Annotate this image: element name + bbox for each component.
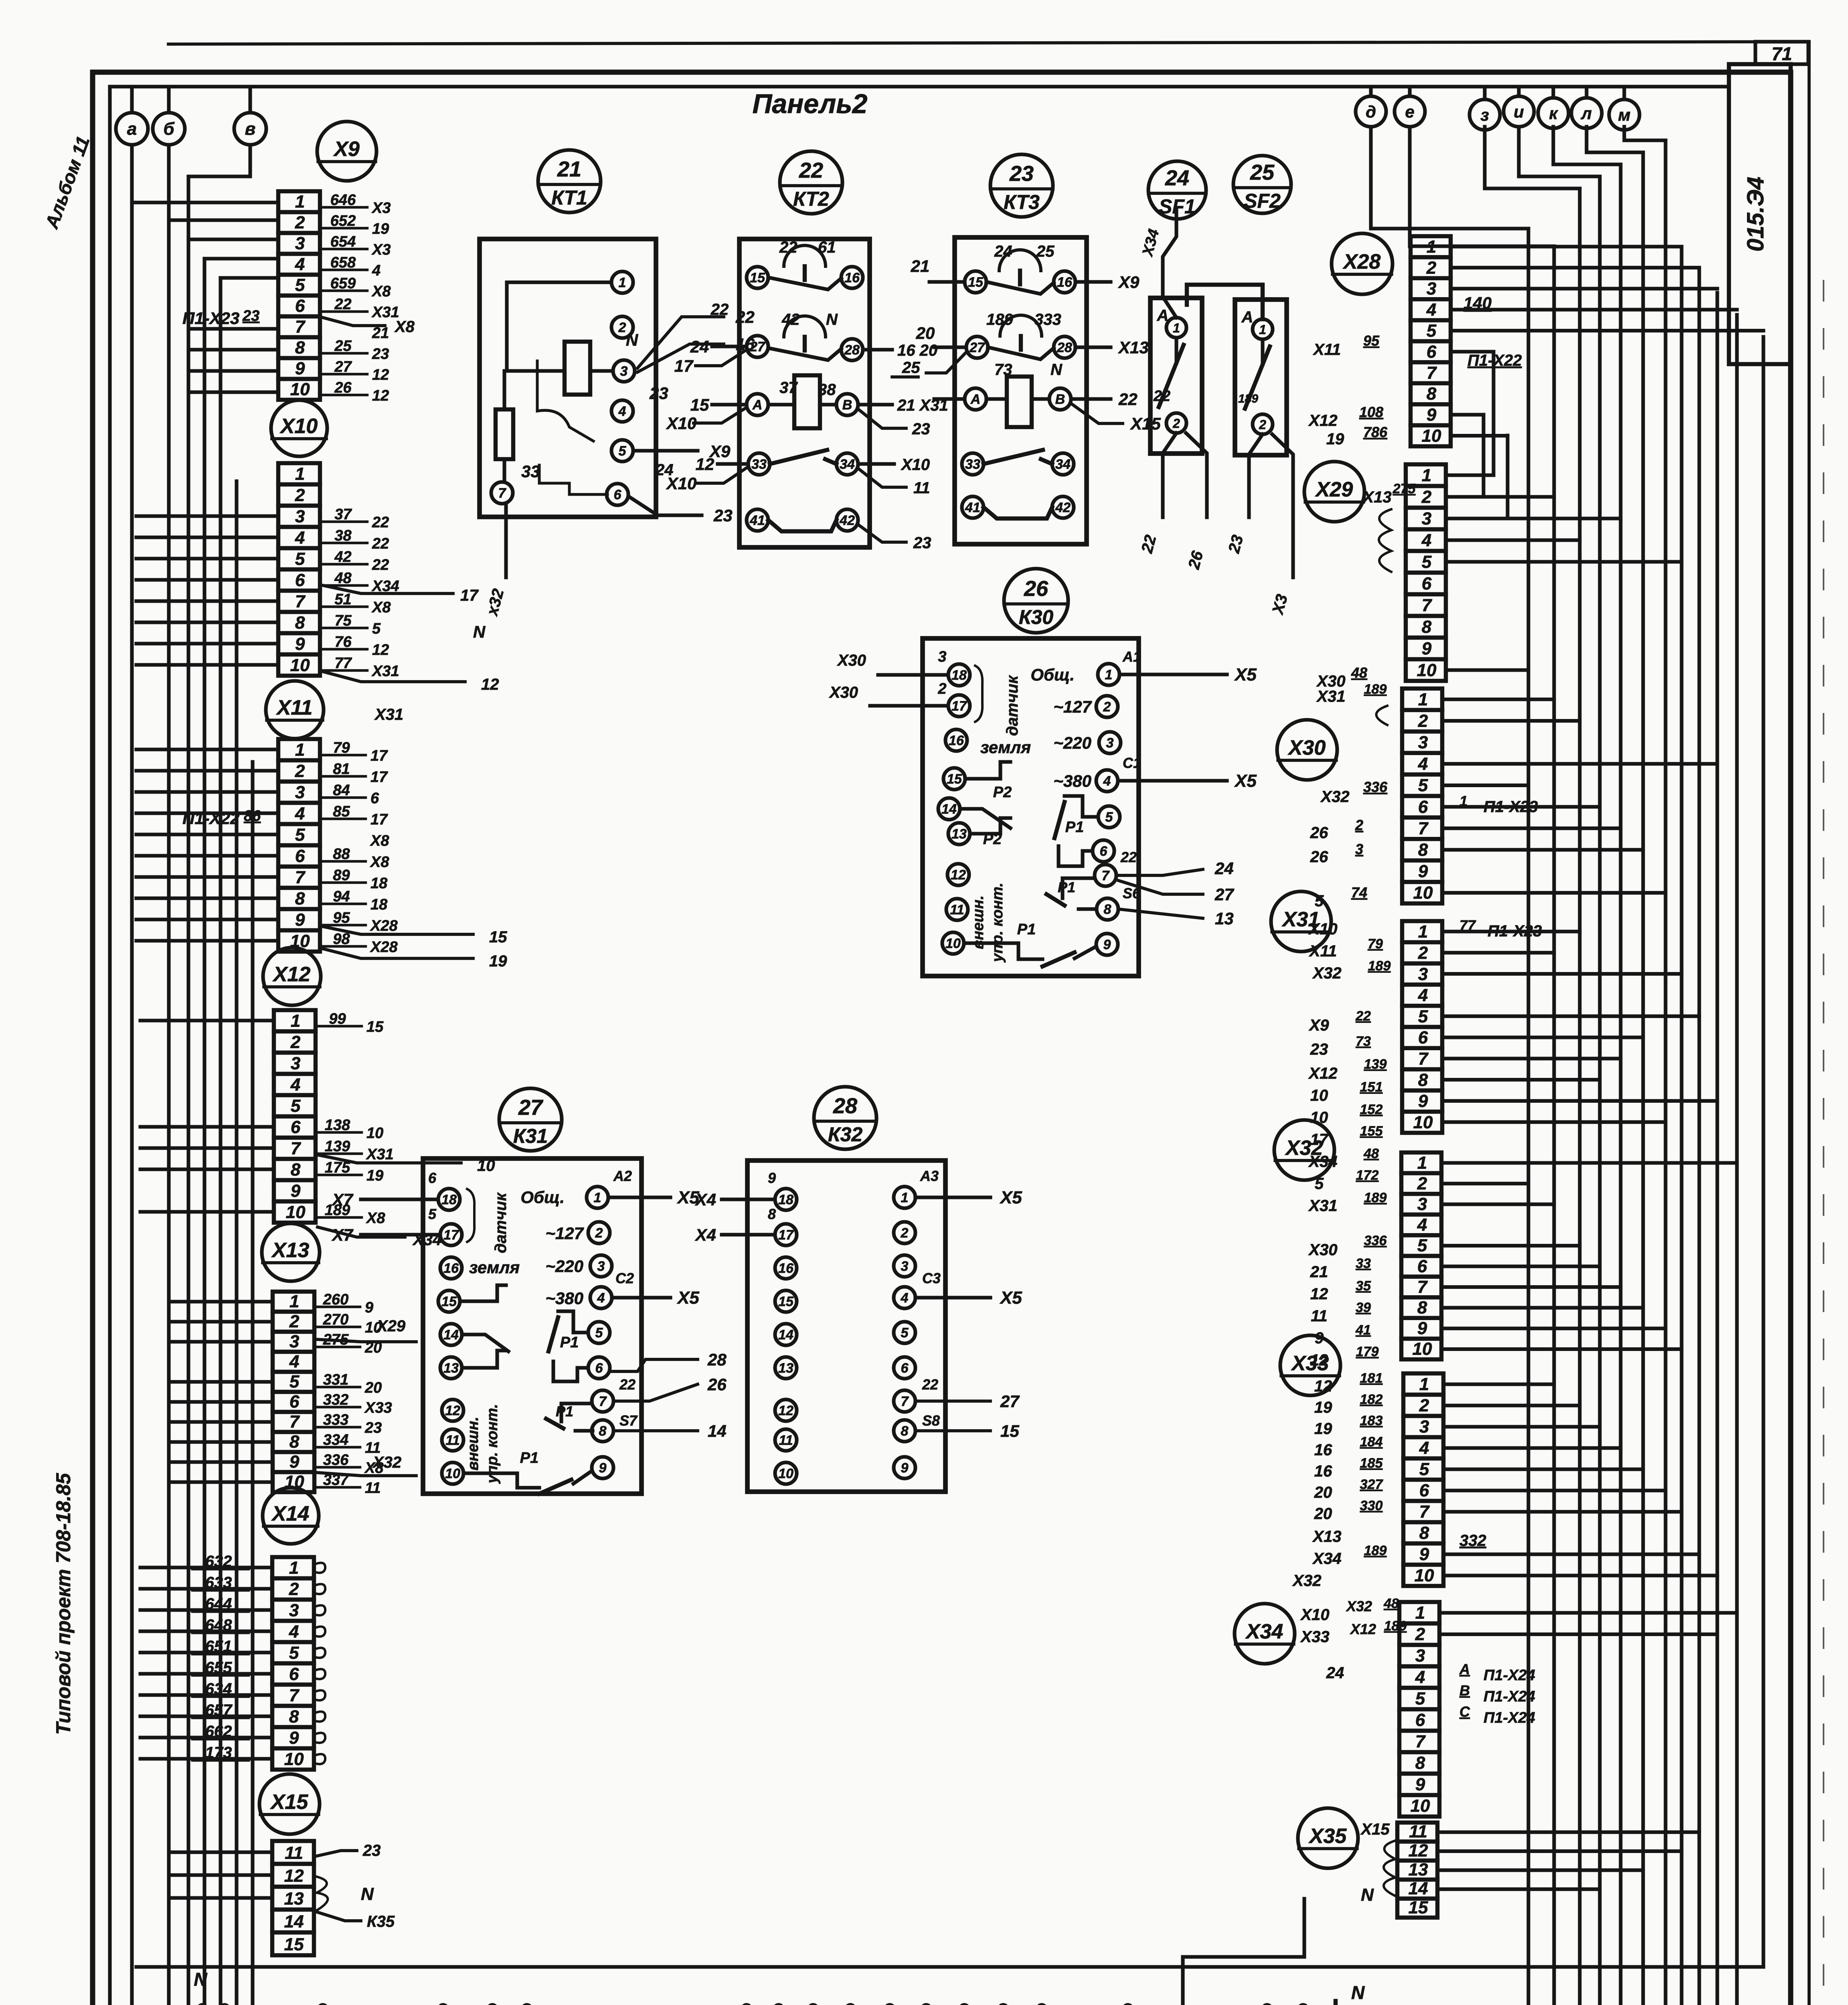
- svg-text:7: 7: [295, 867, 306, 887]
- svg-text:2: 2: [901, 1225, 909, 1241]
- svg-text:S6: S6: [1123, 885, 1141, 901]
- wire tags X9: [320, 192, 415, 404]
- svg-text:10: 10: [945, 936, 961, 951]
- svg-text:327: 327: [1360, 1477, 1384, 1492]
- svg-text:7: 7: [289, 1685, 300, 1705]
- svg-text:Х5: Х5: [999, 1188, 1022, 1207]
- svg-text:10: 10: [286, 1202, 306, 1222]
- svg-text:Х29: Х29: [376, 1317, 406, 1335]
- drawing frame inner left line: [108, 87, 111, 2005]
- svg-text:2: 2: [289, 1579, 299, 1599]
- svg-text:2: 2: [1421, 487, 1432, 507]
- svg-text:5: 5: [595, 1325, 603, 1341]
- svg-text:336: 336: [323, 1452, 349, 1468]
- svg-text:26: 26: [1024, 577, 1048, 601]
- svg-text:9: 9: [1418, 1092, 1428, 1111]
- node а top-left: [116, 87, 148, 145]
- svg-text:7: 7: [1102, 868, 1110, 883]
- terminal block X11: [278, 739, 320, 952]
- relay block K30 inner details: [960, 665, 1098, 966]
- svg-text:23: 23: [1310, 1041, 1328, 1058]
- wire bundle right verticals: [1528, 140, 1763, 2005]
- svg-text:5: 5: [901, 1325, 909, 1341]
- wires into X12: [140, 1021, 274, 1212]
- svg-text:260: 260: [323, 1291, 348, 1308]
- svg-text:Х28: Х28: [370, 917, 398, 934]
- svg-text:21: 21: [911, 257, 930, 275]
- svg-text:23: 23: [362, 1842, 381, 1859]
- terminal block X32: [1401, 1152, 1441, 1359]
- svg-text:Х12: Х12: [1308, 1065, 1337, 1082]
- node и top-right: [1504, 87, 1534, 127]
- svg-text:S7: S7: [619, 1412, 638, 1429]
- svg-text:Х5: Х5: [676, 1288, 699, 1308]
- svg-text:А2: А2: [613, 1168, 632, 1184]
- svg-text:Общ.: Общ.: [1030, 665, 1075, 684]
- svg-text:334: 334: [323, 1432, 348, 1448]
- relay KT2 box: [739, 239, 870, 547]
- svg-text:4: 4: [295, 528, 305, 547]
- sheet number box 71 top right: [1755, 42, 1808, 64]
- svg-text:18: 18: [951, 668, 967, 683]
- svg-text:5: 5: [1315, 892, 1324, 910]
- svg-text:Х32: Х32: [1320, 788, 1349, 806]
- svg-text:4: 4: [1419, 1438, 1429, 1458]
- svg-text:Х12: Х12: [1308, 412, 1337, 429]
- node з top-right: [1469, 87, 1500, 130]
- sheet top edge line: [168, 42, 1809, 44]
- svg-text:Х11: Х11: [1313, 341, 1341, 358]
- svg-text:6: 6: [295, 296, 305, 316]
- svg-text:9: 9: [599, 1460, 607, 1476]
- svg-text:10: 10: [1310, 1087, 1328, 1104]
- svg-text:16 20: 16 20: [897, 342, 937, 359]
- svg-text:3: 3: [938, 648, 946, 665]
- svg-text:Х9: Х9: [333, 138, 360, 161]
- svg-text:3: 3: [1419, 1417, 1429, 1436]
- svg-text:23: 23: [713, 506, 733, 525]
- svg-text:3: 3: [620, 364, 628, 379]
- svg-text:27: 27: [749, 339, 766, 354]
- svg-text:4: 4: [372, 262, 381, 279]
- svg-text:181: 181: [1360, 1371, 1383, 1386]
- svg-text:9: 9: [768, 1170, 776, 1186]
- svg-text:19: 19: [489, 952, 507, 970]
- svg-text:17: 17: [1310, 1131, 1329, 1148]
- svg-text:Р1: Р1: [560, 1334, 579, 1351]
- svg-text:1: 1: [291, 1011, 300, 1031]
- svg-text:внешн.: внешн.: [465, 1417, 482, 1470]
- svg-text:24: 24: [690, 337, 709, 356]
- svg-text:10: 10: [290, 380, 310, 399]
- svg-text:12: 12: [372, 642, 389, 658]
- svg-text:26: 26: [334, 379, 352, 396]
- svg-text:42: 42: [839, 513, 855, 528]
- svg-text:189: 189: [1364, 1543, 1387, 1558]
- svg-text:Х12: Х12: [1350, 1621, 1376, 1637]
- svg-text:1: 1: [1418, 690, 1428, 709]
- svg-text:датчик: датчик: [1004, 675, 1021, 736]
- svg-text:25: 25: [902, 359, 920, 377]
- svg-text:7: 7: [901, 1394, 909, 1409]
- svg-text:22: 22: [619, 1376, 636, 1393]
- svg-text:4: 4: [1417, 1215, 1427, 1235]
- block id circle 22 KT2: [780, 151, 842, 214]
- svg-text:7: 7: [1422, 595, 1433, 615]
- svg-text:27: 27: [518, 1096, 544, 1120]
- svg-text:152: 152: [1360, 1102, 1383, 1117]
- svg-text:1: 1: [1418, 922, 1428, 942]
- block id circle 21 KT1: [538, 150, 601, 213]
- wires below SF1: [1138, 433, 1207, 571]
- svg-text:5: 5: [295, 549, 305, 569]
- node б top-left: [153, 87, 185, 145]
- svg-text:8: 8: [1418, 840, 1428, 860]
- svg-text:3: 3: [1106, 735, 1114, 751]
- svg-text:С: С: [1459, 1703, 1470, 1720]
- wire tags X32: [1308, 1146, 1387, 1369]
- svg-text:~380: ~380: [1053, 772, 1091, 790]
- svg-text:38: 38: [818, 381, 836, 399]
- terminal block X30: [1402, 689, 1442, 903]
- relay KT1 pins and coil: [491, 271, 674, 505]
- svg-text:8: 8: [1418, 1070, 1428, 1090]
- svg-text:9: 9: [295, 359, 305, 379]
- connector X12 circle: [263, 948, 321, 1005]
- svg-text:189: 189: [986, 311, 1013, 328]
- svg-text:6: 6: [428, 1170, 437, 1186]
- svg-text:Х15: Х15: [1360, 1821, 1390, 1838]
- wire SF1-SF2 bridge: [1187, 285, 1263, 319]
- svg-text:95: 95: [333, 909, 350, 926]
- svg-text:20: 20: [1314, 1484, 1332, 1501]
- null bus junction dots: [198, 2005, 1308, 2005]
- svg-text:Р1: Р1: [556, 1403, 573, 1420]
- svg-text:Х12: Х12: [272, 963, 311, 986]
- svg-text:22: 22: [779, 239, 797, 256]
- svg-text:3: 3: [289, 1332, 299, 1351]
- svg-text:4: 4: [295, 804, 305, 823]
- svg-text:41: 41: [965, 500, 980, 515]
- svg-text:12: 12: [445, 1403, 460, 1418]
- connector X28 circle: [1332, 233, 1393, 294]
- svg-text:18: 18: [370, 875, 388, 892]
- svg-text:654: 654: [330, 233, 356, 250]
- svg-text:16: 16: [778, 1261, 794, 1276]
- svg-text:5: 5: [289, 1643, 299, 1663]
- svg-text:Х31: Х31: [374, 706, 403, 723]
- svg-text:Х3: Х3: [371, 241, 391, 258]
- svg-text:2: 2: [1415, 1624, 1425, 1644]
- svg-text:А: А: [752, 397, 763, 413]
- svg-text:16: 16: [844, 270, 860, 286]
- svg-text:35: 35: [1356, 1278, 1371, 1294]
- svg-text:Х34: Х34: [1308, 1153, 1337, 1171]
- svg-text:8: 8: [1415, 1753, 1425, 1773]
- svg-text:А1: А1: [1122, 648, 1141, 665]
- svg-text:4: 4: [290, 1075, 300, 1094]
- svg-text:А3: А3: [920, 1168, 939, 1184]
- scanner edge dashed line right: [1823, 281, 1824, 2005]
- svg-text:2: 2: [595, 1225, 603, 1241]
- svg-text:9: 9: [1103, 937, 1111, 952]
- svg-text:10: 10: [1415, 1566, 1434, 1585]
- wires into X14: [140, 1568, 272, 1759]
- block id circle 25 SF2: [1233, 156, 1291, 213]
- wire tags X12: [318, 1011, 495, 1249]
- svg-text:С1: С1: [1123, 755, 1141, 771]
- svg-text:19: 19: [372, 221, 389, 237]
- svg-text:N: N: [626, 330, 639, 349]
- svg-text:95: 95: [1363, 332, 1380, 349]
- svg-text:17: 17: [951, 699, 968, 714]
- svg-text:Х15: Х15: [1130, 414, 1161, 433]
- svg-text:Х11: Х11: [1309, 942, 1337, 960]
- svg-text:Х7: Х7: [332, 1225, 354, 1244]
- node е top-right: [1395, 87, 1425, 127]
- svg-text:21: 21: [1310, 1263, 1328, 1281]
- svg-text:4: 4: [597, 1290, 605, 1306]
- svg-text:1: 1: [295, 464, 305, 484]
- svg-text:15: 15: [489, 928, 507, 946]
- svg-text:2: 2: [1418, 943, 1428, 963]
- svg-text:74: 74: [1351, 884, 1367, 901]
- svg-text:6: 6: [595, 1361, 603, 1376]
- svg-text:5: 5: [291, 1096, 301, 1116]
- relay block K32 box: [747, 1160, 945, 1492]
- svg-text:24: 24: [1165, 166, 1189, 190]
- svg-text:Р1: Р1: [1017, 921, 1036, 938]
- svg-text:Х10: Х10: [901, 456, 930, 474]
- svg-text:5: 5: [289, 1372, 300, 1391]
- node л top-right: [1571, 87, 1602, 128]
- svg-text:84: 84: [333, 782, 350, 799]
- svg-text:11: 11: [445, 1433, 459, 1448]
- svg-text:6: 6: [1419, 1480, 1429, 1500]
- svg-text:3: 3: [291, 1053, 300, 1073]
- svg-text:К30: К30: [1019, 606, 1054, 628]
- terminal block X35: [1397, 1822, 1437, 1918]
- svg-text:15: 15: [690, 395, 709, 414]
- svg-text:Х10: Х10: [666, 474, 697, 493]
- svg-text:12: 12: [372, 367, 389, 383]
- svg-text:646: 646: [330, 192, 356, 209]
- svg-text:Панель2: Панель2: [753, 89, 868, 119]
- svg-text:8: 8: [599, 1424, 607, 1439]
- wires X33 to bus: [1443, 1384, 1717, 1576]
- connector X9 circle: [317, 122, 376, 181]
- svg-text:6: 6: [614, 487, 622, 502]
- svg-text:Х34: Х34: [1245, 1620, 1283, 1643]
- wire X35 N drop to bus: [1183, 1899, 1304, 2005]
- svg-text:2: 2: [1355, 817, 1363, 833]
- svg-text:7: 7: [295, 591, 306, 611]
- svg-text:2: 2: [1417, 1174, 1427, 1193]
- wire SF1 top to X34: [1139, 209, 1176, 318]
- svg-text:48: 48: [334, 570, 352, 587]
- svg-text:26: 26: [707, 1375, 727, 1394]
- svg-text:10: 10: [1310, 1109, 1328, 1126]
- svg-text:3: 3: [295, 234, 305, 253]
- wires into X15: [172, 1852, 272, 1898]
- svg-text:183: 183: [1360, 1413, 1383, 1428]
- svg-text:1: 1: [289, 1292, 299, 1311]
- svg-text:7: 7: [1418, 1049, 1429, 1069]
- svg-text:22: 22: [1118, 390, 1138, 409]
- svg-text:10: 10: [1413, 1339, 1432, 1359]
- wire tags X33: [1292, 1371, 1486, 1590]
- svg-text:3: 3: [1418, 964, 1428, 984]
- svg-text:17: 17: [443, 1227, 459, 1243]
- wire tags X34: [1300, 1596, 1535, 1726]
- svg-text:10: 10: [1417, 660, 1437, 680]
- svg-text:1: 1: [289, 1558, 299, 1578]
- svg-text:11: 11: [779, 1433, 793, 1448]
- svg-text:К31: К31: [513, 1125, 548, 1147]
- svg-text:37: 37: [334, 506, 352, 523]
- wire tags X29: [1316, 481, 1416, 690]
- wire tags X35: [1360, 1821, 1395, 1905]
- wire tags KT1 right: [629, 308, 755, 525]
- svg-text:7: 7: [289, 1412, 300, 1432]
- svg-text:76: 76: [334, 634, 352, 650]
- svg-text:5: 5: [1422, 552, 1432, 572]
- svg-text:4: 4: [1418, 754, 1428, 774]
- svg-text:6: 6: [1422, 574, 1432, 593]
- svg-text:упр. конт.: упр. конт.: [989, 883, 1006, 963]
- svg-text:В: В: [1459, 1682, 1470, 1699]
- relay block K32 pins: [775, 1187, 915, 1484]
- svg-text:17: 17: [370, 769, 388, 786]
- svg-text:33: 33: [751, 457, 767, 472]
- svg-text:13: 13: [443, 1361, 459, 1376]
- block id circle 27 K31: [499, 1088, 562, 1151]
- svg-text:20: 20: [916, 324, 935, 342]
- svg-text:38: 38: [334, 527, 352, 544]
- svg-text:КТ1: КТ1: [551, 186, 587, 209]
- node д top-right: [1356, 87, 1386, 127]
- svg-text:12: 12: [1314, 1377, 1332, 1395]
- svg-text:2: 2: [295, 213, 305, 233]
- svg-text:Х9: Х9: [1309, 1017, 1330, 1034]
- svg-text:Р1: Р1: [1058, 879, 1075, 895]
- svg-text:7: 7: [498, 486, 507, 501]
- svg-text:15: 15: [284, 1934, 304, 1954]
- svg-text:12: 12: [372, 387, 389, 404]
- svg-text:23: 23: [242, 308, 259, 324]
- svg-text:108: 108: [1359, 404, 1383, 420]
- svg-text:А: А: [1459, 1661, 1470, 1677]
- block id circle 28 K32: [814, 1087, 876, 1149]
- svg-text:2: 2: [1418, 711, 1428, 731]
- svg-text:Х32: Х32: [372, 1454, 401, 1471]
- svg-text:4: 4: [1415, 1667, 1425, 1687]
- connector X34 circle: [1235, 1604, 1295, 1664]
- svg-text:17: 17: [674, 356, 694, 375]
- svg-text:А: А: [970, 392, 981, 407]
- svg-text:1: 1: [619, 275, 626, 290]
- svg-text:6: 6: [1100, 844, 1108, 859]
- svg-text:79: 79: [1368, 936, 1383, 952]
- svg-text:24: 24: [1326, 1664, 1344, 1682]
- terminal block X13: [273, 1292, 314, 1492]
- svg-text:34: 34: [840, 457, 855, 472]
- svg-text:6: 6: [1418, 1028, 1428, 1047]
- connector X10 circle: [271, 400, 327, 456]
- svg-text:Х7: Х7: [332, 1190, 354, 1209]
- svg-text:19: 19: [1314, 1399, 1332, 1416]
- connector X32 circle: [1274, 1120, 1334, 1180]
- wire bundle left verticals: [132, 145, 253, 2005]
- svg-text:24: 24: [1214, 859, 1234, 878]
- svg-text:Х30: Х30: [837, 652, 866, 669]
- svg-text:м: м: [1618, 105, 1630, 124]
- svg-text:15: 15: [366, 1019, 384, 1035]
- svg-text:138: 138: [325, 1117, 350, 1134]
- svg-text:33: 33: [1356, 1256, 1371, 1271]
- wires into X11: [136, 749, 278, 941]
- svg-text:8: 8: [1417, 1298, 1427, 1317]
- svg-text:Х10: Х10: [666, 414, 697, 433]
- svg-text:10: 10: [290, 655, 310, 675]
- wire tag П1-Х23 into X9: [182, 308, 259, 328]
- relay block K30 pins: [938, 664, 1121, 955]
- svg-text:8: 8: [295, 613, 305, 632]
- svg-text:20: 20: [1314, 1505, 1332, 1523]
- svg-text:22: 22: [710, 301, 729, 318]
- svg-text:15: 15: [947, 772, 962, 787]
- svg-text:9: 9: [1315, 1329, 1324, 1347]
- svg-text:Х5: Х5: [1234, 665, 1257, 685]
- relay KT2 pins and contacts: [747, 239, 863, 531]
- svg-text:N: N: [361, 1884, 374, 1904]
- svg-text:В: В: [1055, 392, 1065, 407]
- svg-text:18: 18: [778, 1192, 793, 1207]
- svg-text:16: 16: [1057, 275, 1073, 290]
- svg-text:333: 333: [323, 1412, 348, 1428]
- svg-text:11: 11: [950, 902, 964, 917]
- svg-text:земля: земля: [980, 738, 1031, 757]
- svg-text:13: 13: [951, 826, 967, 842]
- svg-text:139: 139: [1364, 1057, 1387, 1072]
- wire tags X10: [323, 506, 499, 693]
- svg-text:24: 24: [994, 243, 1012, 260]
- svg-text:~127: ~127: [1053, 697, 1092, 716]
- svg-text:Х31: Х31: [1308, 1197, 1337, 1215]
- svg-text:8: 8: [1419, 1523, 1429, 1543]
- svg-text:Х30: Х30: [1287, 736, 1326, 759]
- svg-text:1: 1: [1415, 1603, 1425, 1623]
- connector X13 circle: [262, 1223, 320, 1281]
- svg-text:17: 17: [778, 1227, 794, 1243]
- node м top-right: [1609, 87, 1640, 130]
- svg-text:9: 9: [289, 1452, 300, 1472]
- svg-text:Х28: Х28: [1342, 250, 1381, 273]
- svg-text:2: 2: [1419, 1395, 1429, 1415]
- svg-text:8: 8: [768, 1206, 776, 1222]
- svg-text:15: 15: [441, 1294, 457, 1309]
- svg-text:28: 28: [1057, 340, 1072, 355]
- wires X28 to bus: [1447, 247, 1763, 518]
- svg-text:е: е: [1405, 102, 1414, 121]
- svg-text:Общ.: Общ.: [520, 1188, 565, 1207]
- svg-text:Х35: Х35: [1308, 1825, 1347, 1848]
- svg-text:41: 41: [1355, 1322, 1371, 1338]
- svg-text:79: 79: [333, 739, 350, 756]
- svg-text:27: 27: [334, 358, 352, 375]
- svg-text:659: 659: [330, 275, 356, 292]
- svg-text:КТ2: КТ2: [793, 188, 829, 210]
